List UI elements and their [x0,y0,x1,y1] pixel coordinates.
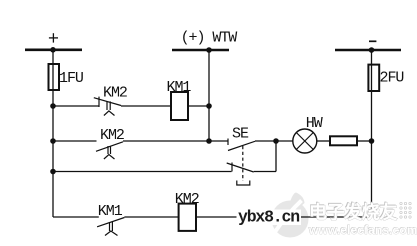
svg-text:KM2: KM2 [103,85,127,102]
left bus wire [52,50,54,217]
wire: KM2 NC contact to KM1 coil [121,105,171,107]
junction dot on WTW bar [206,47,212,53]
watermark logo disc [272,193,309,238]
junction dot SE outputs [273,138,279,144]
svg-text:(+) WTW: (+) WTW [181,30,238,47]
wire: left bus to KM2 NC contact row1 [53,105,99,107]
junction dot on + bar [50,47,56,53]
switch SE lower contact [227,141,276,172]
lamp HW [293,115,323,153]
positive terminal + (left) [25,33,82,50]
wire: left bus row3 to SE lower contact [53,171,232,173]
svg-text:1FU: 1FU [59,70,83,87]
contact KM1 normally-open (row4) [97,218,124,236]
junction dot left bus / row2 [50,138,56,144]
svg-text:KM1: KM1 [167,79,192,96]
wire: KM2 NO contact to middle bus [123,140,209,142]
fuse 1FU [49,64,83,90]
negative terminal - (right) [335,41,401,50]
coil KM2 [175,191,199,231]
resistor (ballast) [330,136,357,145]
right bus wire [371,50,373,217]
wire: left bus to KM2 NO contact row2 [53,140,97,142]
junction dot right bus / lamp row [369,138,375,144]
coil KM1 [167,79,192,120]
wire: KM1 NO contact to KM2 coil [124,216,178,218]
contact KM2 normally-open (row2) [96,142,123,159]
wire: left bus corner to KM1 NO contact row4 [53,216,99,218]
SE manual actuator stirrup [237,181,250,186]
switch SE upper contact [209,139,255,151]
junction dot on - bar [369,47,375,53]
svg-text:2FU: 2FU [380,70,404,87]
wire: KM2 coil to right bus [196,216,372,218]
watermark dot grid [400,202,411,218]
middle bus wire [208,50,210,141]
junction dot middle bus / row2 / SE [206,138,212,144]
svg-text:KM2: KM2 [175,191,199,208]
svg-text:HW: HW [306,115,323,132]
junction dot left bus / row1 [50,103,56,109]
wire: KM1 coil to middle bus [188,105,209,107]
junction dot left bus / row3 [50,169,56,175]
svg-text:KM2: KM2 [100,127,124,144]
svg-text:KM1: KM1 [98,203,123,220]
svg-text:www.elecfans.com: www.elecfans.com [308,223,417,237]
junction dot middle bus / row1 [206,103,212,109]
wire: SE upper contact to lamp [255,140,293,142]
contact KM2 normally-closed (row1) [94,97,121,116]
positive bus terminal (+) WTW [172,30,237,51]
svg-text:SE: SE [232,125,249,142]
wire: lamp to resistor [317,140,330,142]
wire: resistor to right bus [357,140,372,142]
site watermark ybx8.cn [237,210,302,226]
fuse 2FU [368,65,403,91]
SE mechanical link (dashed) [242,146,244,181]
svg-text:电子发烧友: 电子发烧友 [309,202,397,223]
svg-text:ybx8.cn: ybx8.cn [238,208,299,227]
